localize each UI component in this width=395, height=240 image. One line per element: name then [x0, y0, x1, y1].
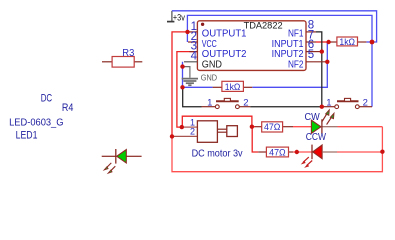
svg-text:OUTPUT2: OUTPUT2 [202, 49, 247, 60]
IC pin stubs right [306, 32, 327, 62]
wire +3v outer rail to pin7 node [172, 11, 377, 42]
svg-text:2: 2 [363, 97, 368, 108]
svg-text:47Ω: 47Ω [264, 122, 281, 133]
junction pin6 tap [320, 49, 324, 53]
junction switch row pin8 node [320, 105, 324, 109]
wire 1k below to IC pin5 (blue) [252, 42, 327, 88]
wire GND net blue: pin4 down to 1k row [183, 62, 213, 88]
resistor R1 1k below IC [213, 81, 253, 93]
junction pin7 right node [370, 40, 375, 45]
svg-text:1kΩ: 1kΩ [339, 37, 355, 48]
svg-text:1: 1 [207, 97, 212, 108]
wire motor pin2 down to bottom bus up right side (pink highlighted) [172, 127, 382, 172]
svg-text:2: 2 [243, 97, 248, 108]
IC U1 TDA2822 body [197, 21, 306, 71]
resistor 47 ohm CCW [258, 147, 293, 158]
junction CCW row dot [295, 150, 299, 154]
IC pin stubs left [184, 32, 197, 62]
junction GND 1k switch node [180, 85, 184, 89]
wire switch S1 right to pin8 node (black) [250, 106, 322, 108]
svg-text:R3: R3 [122, 48, 135, 59]
svg-text:DC motor 3v: DC motor 3v [192, 148, 244, 160]
resistor 47 ohm CW [255, 122, 293, 133]
svg-text:OUTPUT1: OUTPUT1 [202, 29, 247, 40]
junction pin7 left node [326, 40, 330, 44]
svg-text:5: 5 [308, 49, 314, 61]
svg-text:TDA2822: TDA2822 [244, 21, 283, 31]
pin numbers 8-5 [308, 19, 314, 61]
junction motor pin2 node [170, 134, 174, 138]
LED CCW red [301, 145, 337, 168]
svg-text:NF2: NF2 [288, 60, 304, 71]
wire 47ohm node to CW resistor (red) [252, 126, 255, 128]
wire CW LED row pink right segment [338, 126, 383, 128]
junction right CCW CW join [380, 150, 384, 154]
LED LED1 green (floating, left) [102, 149, 142, 173]
LED CW green [311, 110, 337, 134]
svg-text:R4: R4 [62, 102, 74, 114]
svg-text:LED-0603_G: LED-0603_G [9, 116, 63, 128]
svg-text:LED1: LED1 [16, 130, 38, 142]
svg-text:GND: GND [201, 74, 218, 83]
wire IC pin8 black down to switch row [316, 32, 322, 107]
junction motor pin1 node [180, 125, 184, 129]
junction 47ohm node [250, 125, 254, 129]
wire inner rail pin2/pin1 to pin7 node to switch S2 [187, 15, 372, 106]
svg-text:NF1: NF1 [288, 29, 304, 40]
pin numbers 1-4 [191, 21, 198, 63]
wire 47ohm node down to CCW row (red) [252, 127, 258, 152]
svg-text:1kΩ: 1kΩ [225, 82, 241, 93]
svg-text:GND: GND [202, 60, 222, 71]
wire switch S1 left black from GND node [183, 87, 202, 106]
wire CW row pink between 47ohm and LED [293, 126, 312, 128]
svg-text:CCW: CCW [306, 132, 326, 143]
switch S1 [202, 97, 251, 108]
wire IC pin3 net down to motor pin1 node (red) [177, 52, 198, 128]
svg-text:1: 1 [326, 97, 331, 108]
DC motor M1 [172, 118, 237, 143]
ground symbol GND [182, 67, 218, 86]
svg-text:2: 2 [190, 127, 195, 137]
junction pin4 GND node [180, 64, 184, 68]
svg-text:INPUT2: INPUT2 [272, 49, 304, 60]
resistor R2 1k at pin7 [329, 37, 367, 48]
junction pin5 tap [325, 60, 329, 64]
junction pin1 node [185, 30, 189, 34]
power symbol +3v [167, 11, 185, 23]
resistor R3 (floating, left) [102, 57, 142, 68]
svg-text:DC: DC [41, 92, 53, 104]
wire CCW row pink segments [293, 151, 382, 153]
svg-text:CW: CW [305, 112, 320, 123]
wire motor pin1 node up over to 47ohm node (red) [182, 116, 252, 127]
svg-text:+3v: +3v [173, 13, 185, 23]
wire IC pin1 net to motor pin2 (red) [172, 32, 188, 136]
svg-text:4: 4 [191, 51, 198, 63]
wire IC pin7 to 1k resistor (red) [316, 41, 329, 43]
wire 1k top right stub to pin7 node (blue) [366, 41, 372, 43]
svg-text:47Ω: 47Ω [269, 147, 286, 158]
switch S2 [322, 97, 372, 108]
